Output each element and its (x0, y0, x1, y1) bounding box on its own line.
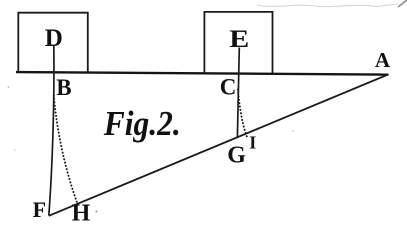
svg-text:G: G (227, 143, 246, 169)
svg-text:C: C (220, 75, 237, 100)
svg-text:I: I (249, 133, 256, 153)
svg-text:F: F (33, 197, 46, 222)
svg-text:Fig.2.: Fig.2. (103, 104, 181, 143)
svg-text:E: E (229, 24, 249, 52)
svg-text:H: H (72, 201, 91, 227)
svg-text:D: D (45, 25, 63, 52)
svg-text:A: A (375, 48, 391, 72)
svg-text:B: B (56, 75, 71, 100)
